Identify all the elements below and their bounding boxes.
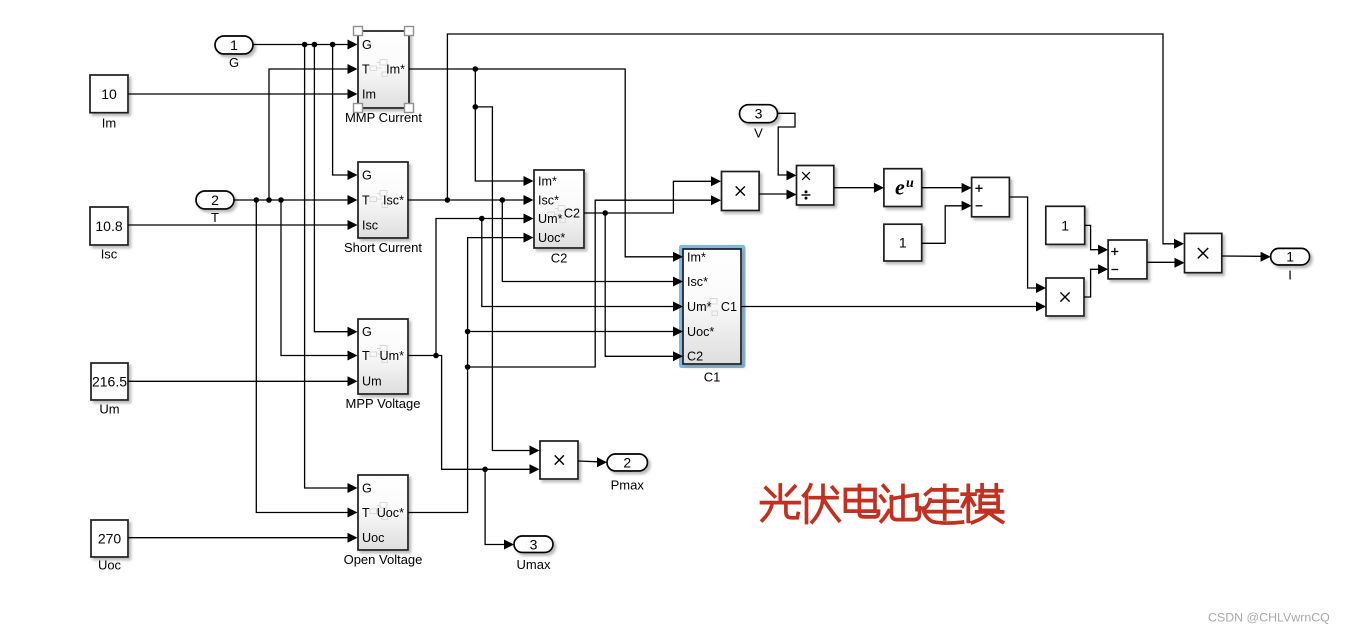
svg-text:C2: C2 <box>551 251 568 266</box>
svg-text:2: 2 <box>211 192 219 208</box>
svg-text:Isc*: Isc* <box>687 275 708 289</box>
svg-text:Um*: Um* <box>538 212 563 226</box>
svg-text:Isc*: Isc* <box>538 193 559 207</box>
svg-text:Um: Um <box>362 375 382 389</box>
svg-text:T: T <box>211 210 219 225</box>
svg-text:Im*: Im* <box>687 250 706 264</box>
svg-text:Uoc*: Uoc* <box>377 506 404 520</box>
svg-text:C1: C1 <box>704 369 721 384</box>
svg-text:Im*: Im* <box>538 174 557 188</box>
svg-text:G: G <box>362 38 372 52</box>
svg-text:Umax: Umax <box>517 557 551 572</box>
svg-text:Uoc*: Uoc* <box>538 231 565 245</box>
svg-text:Uoc: Uoc <box>362 531 384 545</box>
svg-text:Um: Um <box>99 402 119 417</box>
svg-text:Isc*: Isc* <box>383 193 404 207</box>
svg-text:G: G <box>362 481 372 495</box>
svg-text:u: u <box>906 176 914 191</box>
svg-text:Im: Im <box>362 87 376 101</box>
svg-text:Uoc: Uoc <box>98 558 122 573</box>
svg-text:Short Current: Short Current <box>344 240 422 255</box>
svg-text:1: 1 <box>1061 217 1069 233</box>
svg-text:Pmax: Pmax <box>611 478 645 493</box>
svg-text:3: 3 <box>530 536 538 552</box>
svg-text:T: T <box>362 193 370 207</box>
svg-text:10: 10 <box>101 86 117 102</box>
svg-text:G: G <box>229 55 239 70</box>
svg-text:216.5: 216.5 <box>92 374 127 390</box>
svg-text:1: 1 <box>230 37 238 53</box>
svg-text:G: G <box>362 325 372 339</box>
svg-text:C1: C1 <box>721 300 737 314</box>
svg-text:T: T <box>362 506 370 520</box>
svg-text:1: 1 <box>899 235 907 251</box>
svg-text:1: 1 <box>1286 249 1294 265</box>
svg-text:V: V <box>754 126 763 141</box>
svg-text:I: I <box>1288 268 1292 283</box>
svg-text:2: 2 <box>623 455 631 471</box>
svg-text:T: T <box>362 349 370 363</box>
svg-text:Um*: Um* <box>380 349 405 363</box>
svg-text:G: G <box>362 168 372 182</box>
svg-text:3: 3 <box>755 106 763 122</box>
svg-text:e: e <box>895 175 905 200</box>
svg-text:10.8: 10.8 <box>95 218 122 234</box>
svg-text:Im*: Im* <box>386 62 405 76</box>
svg-text:C2: C2 <box>687 350 703 364</box>
svg-text:Um*: Um* <box>687 300 712 314</box>
svg-text:270: 270 <box>98 531 122 547</box>
svg-text:CSDN @CHLVwrnCQ: CSDN @CHLVwrnCQ <box>1208 611 1330 625</box>
svg-text:Uoc*: Uoc* <box>687 325 714 339</box>
svg-text:MPP Voltage: MPP Voltage <box>346 396 421 411</box>
svg-text:Isc: Isc <box>101 247 118 262</box>
svg-text:Open Voltage: Open Voltage <box>344 552 423 567</box>
svg-text:Im: Im <box>102 116 116 131</box>
svg-text:C2: C2 <box>564 206 580 220</box>
svg-text:T: T <box>362 62 370 76</box>
svg-text:Isc: Isc <box>362 218 378 232</box>
